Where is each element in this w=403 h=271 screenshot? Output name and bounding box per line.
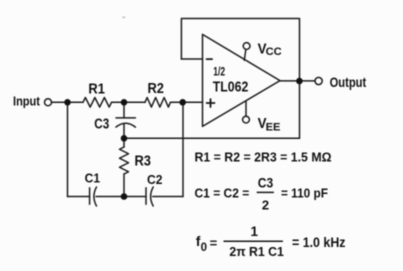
input terminal circle: [45, 99, 52, 106]
wire R1 to R2: [112, 101, 146, 103]
output terminal circle: [315, 77, 322, 84]
svg-text:Input: Input: [13, 94, 40, 109]
wire feedback box: [181, 19, 299, 139]
VCC pin circle: [243, 43, 250, 50]
wire C3 to node B: [123, 124, 125, 138]
resistor R2: [145, 98, 170, 108]
capacitor C2: [146, 187, 153, 206]
wire left riser: [67, 102, 69, 196]
formula C1 = C2 = C3/2 = 110 pF: [195, 175, 329, 213]
svg-text:C1: C1: [85, 171, 100, 185]
svg-text:=: =: [210, 236, 218, 251]
node output junction: [296, 78, 303, 85]
svg-text:C2: C2: [147, 173, 162, 187]
label VCC: [258, 41, 282, 58]
node + input / C2 riser: [179, 99, 186, 106]
svg-text:CC: CC: [266, 46, 282, 58]
VCC pin wire: [244, 50, 246, 61]
svg-text:C1 = C2 =: C1 = C2 =: [195, 186, 250, 201]
wire C1 to C2: [96, 196, 146, 198]
wire output: [280, 80, 315, 82]
node B C3/R3/bootstrap: [121, 135, 128, 142]
wire R2 to op-amp + input: [171, 101, 203, 103]
VEE pin circle: [243, 116, 250, 123]
svg-text:2π R1 C1: 2π R1 C1: [229, 245, 283, 259]
label VEE: [258, 116, 281, 134]
resistor R1: [83, 98, 112, 108]
op-amp plus sign: [207, 99, 215, 107]
wire R3 to bottom rail: [123, 174, 125, 197]
svg-text:= 110 pF: = 110 pF: [281, 186, 328, 201]
node A R1/R2/C3: [121, 99, 128, 106]
svg-text:= 1.0 kHz: = 1.0 kHz: [292, 234, 346, 250]
wire bottom rail left: [68, 196, 90, 198]
svg-text:Output: Output: [330, 75, 367, 90]
formula f0 = 1/(2pi R1 C1) = 1.0 kHz: [196, 224, 346, 259]
svg-text:EE: EE: [266, 121, 281, 133]
svg-text:R1: R1: [88, 79, 105, 96]
node input junction: [64, 99, 71, 106]
svg-text:1: 1: [251, 224, 259, 239]
svg-text:C3: C3: [94, 115, 109, 132]
svg-text:R3: R3: [135, 152, 152, 169]
capacitor C1: [90, 187, 97, 206]
scan speck: [122, 16, 125, 18]
resistor R3: [120, 147, 129, 174]
wire C2 riser: [182, 102, 184, 196]
wire node A to C3: [123, 102, 125, 118]
wire inverting input: [181, 58, 202, 60]
svg-text:2: 2: [262, 198, 269, 213]
svg-text:1/2: 1/2: [213, 65, 225, 79]
op-amp U1 triangle: [203, 34, 281, 126]
svg-text:TL062: TL062: [213, 78, 249, 94]
wire node B to R3: [123, 138, 125, 147]
capacitor C3: [116, 118, 135, 127]
svg-text:R2: R2: [148, 79, 165, 96]
svg-text:R1 = R2 = 2R3 = 1.5 MΩ: R1 = R2 = 2R3 = 1.5 MΩ: [195, 150, 332, 164]
svg-text:0: 0: [201, 242, 207, 254]
node R3 bottom: [121, 193, 128, 200]
wire input rail: [52, 101, 84, 103]
op-amp minus sign: [207, 58, 213, 60]
wire bootstrap feedback: [124, 137, 300, 139]
wire C2 to riser: [153, 196, 183, 198]
svg-text:C3: C3: [258, 175, 273, 191]
VEE pin wire: [245, 101, 247, 116]
